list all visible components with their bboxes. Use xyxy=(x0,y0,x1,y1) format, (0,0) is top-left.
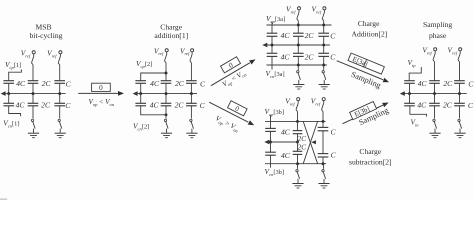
node comparator tap block3b xyxy=(264,140,269,145)
node Vref terminal 2 block3a xyxy=(312,4,322,14)
capacitor C block5 bottom xyxy=(454,94,474,110)
capacitor 2C block2 bottom xyxy=(161,94,185,110)
svg-text:Vcn[3b]: Vcn[3b] xyxy=(265,167,285,177)
capacitor 4C block3a bottom xyxy=(267,45,291,61)
ground block1 right xyxy=(0,0,1,1)
wire bottom bus block3b xyxy=(265,162,326,165)
capacitor 2C block1 bottom xyxy=(28,94,51,110)
node Vcn[3b] label xyxy=(265,167,285,177)
wire sampling arrow from 3b xyxy=(343,100,390,123)
ground block1 left xyxy=(0,0,1,1)
register box E[3a] xyxy=(348,53,385,75)
ground block2 left xyxy=(0,0,1,1)
label Sampling lower xyxy=(358,106,390,127)
capacitor 4C block2 bottom xyxy=(135,94,159,110)
svg-text:Vcp[1]: Vcp[1] xyxy=(5,60,21,70)
wire Vcp[3b] stub xyxy=(270,115,272,121)
switch S3 block2 to ground xyxy=(161,106,172,138)
svg-text:Vcn[1]: Vcn[1] xyxy=(3,118,19,128)
wire common rail block1 xyxy=(2,92,66,95)
wire C top to rail block5 xyxy=(459,83,461,93)
svg-text:2C: 2C xyxy=(298,143,307,151)
title Sampling phase xyxy=(423,20,452,40)
switch S2 block2 to Vref xyxy=(190,49,194,81)
wire C top to rail xyxy=(59,83,61,93)
svg-text:C: C xyxy=(468,79,474,88)
wire 2C top to rail block5 xyxy=(434,83,436,93)
capacitor 4C block3b top xyxy=(265,121,291,136)
ground block2 right xyxy=(0,0,1,1)
capacitor 4C block1 top xyxy=(3,79,26,88)
node Vcn[1] label xyxy=(3,118,19,128)
wire decision arrow down (Vop>Von) xyxy=(209,102,255,127)
switch S3 block3b to ground xyxy=(292,164,303,188)
wire cross connection X right-to-left xyxy=(303,121,317,163)
svg-text:4C: 4C xyxy=(281,127,291,136)
capacitor C block3a bottom xyxy=(318,45,336,62)
node comparator tap block1 xyxy=(1,91,6,96)
switch S3 block1 to ground xyxy=(28,106,39,138)
wire common rail block5 xyxy=(401,92,467,95)
svg-text:Sampling: Sampling xyxy=(423,20,452,29)
switch S3 block3a to ground xyxy=(293,65,304,89)
node comparator tap block5 xyxy=(400,91,405,96)
wire 2C top to rail block2 xyxy=(165,83,167,93)
node Vcn[2] label xyxy=(133,121,149,131)
wire 4C top to rail block5 xyxy=(409,83,411,93)
node comparator tap block3a xyxy=(262,43,267,48)
ground block5 right xyxy=(0,0,1,1)
wire decision arrow 0 (Vop<Von) xyxy=(78,91,124,96)
svg-text:4C: 4C xyxy=(417,101,427,110)
node Vcp[2] label xyxy=(136,59,152,69)
svg-text:Charge: Charge xyxy=(358,19,380,28)
node Vcp[3b] label xyxy=(265,107,285,117)
switch S1 block3b to Vref xyxy=(296,98,300,122)
capacitor 2C block5 bottom xyxy=(429,94,453,110)
register box 0 down xyxy=(227,101,247,117)
svg-text:2C: 2C xyxy=(443,79,453,88)
switch S3 block5 to ground xyxy=(429,106,440,138)
ground block3b left xyxy=(0,0,1,1)
svg-text:2C: 2C xyxy=(175,101,185,110)
wire top bus block3a xyxy=(267,24,332,27)
svg-text:4C: 4C xyxy=(281,31,291,40)
switch S2 block3a to Vref xyxy=(322,7,326,25)
svg-text:Addition[2]: Addition[2] xyxy=(351,29,387,38)
capacitor 4C block2 top xyxy=(135,79,160,88)
wire 4C to rail block3a xyxy=(271,36,273,45)
switch S1 block2 to Vref xyxy=(165,49,169,81)
switch S1 block5 to Vref xyxy=(433,48,437,81)
wire Vcp[3a] stub xyxy=(271,22,273,25)
ground block3b right xyxy=(0,0,1,1)
register box 0 first xyxy=(92,83,111,92)
switch S2 block1 to Vref xyxy=(58,51,62,81)
title Charge Addition[2] xyxy=(351,19,387,38)
svg-text:2C: 2C xyxy=(305,31,315,40)
node Vref terminal 1 block5 xyxy=(422,45,432,55)
node Vref terminal 1 block3a xyxy=(286,4,296,14)
switch S4 block2 to ground xyxy=(186,106,197,138)
switch S2 block3b to Vref xyxy=(322,98,326,122)
svg-text:2C: 2C xyxy=(42,79,52,88)
wire common rail block3a xyxy=(264,44,330,47)
capacitor C block5 top xyxy=(454,79,474,88)
wire C top to rail block2 xyxy=(190,83,192,93)
node Vref terminal 2 block2 xyxy=(180,46,190,56)
node comparator tap block2 xyxy=(133,91,138,96)
wire Vcp[1] pointer to 4C top plate xyxy=(9,69,22,80)
wire sampling arrow from 3a xyxy=(337,61,390,85)
ground block3a right xyxy=(0,0,1,1)
switch S2 block5 to Vref xyxy=(458,48,462,81)
capacitor C block3b bottom xyxy=(318,151,337,160)
svg-text:subtraction[2]: subtraction[2] xyxy=(349,158,392,167)
wire 2C top to rail xyxy=(32,83,34,93)
svg-text:2C: 2C xyxy=(305,52,315,61)
register box E[3b] xyxy=(350,102,377,121)
svg-text:Charge: Charge xyxy=(359,147,381,156)
svg-text:0: 0 xyxy=(99,84,103,92)
capacitor 4C block5 top xyxy=(404,79,427,88)
node Vcp[3a] label xyxy=(266,14,285,24)
wire 4C bottom to bus block3b xyxy=(270,155,272,164)
capacitor 2C block1 top xyxy=(28,79,52,88)
svg-text:4C: 4C xyxy=(418,79,428,88)
capacitor 2C block3a bottom xyxy=(293,45,314,61)
svg-text:Vcn[2]: Vcn[2] xyxy=(133,121,149,131)
svg-text:Vcp[2]: Vcp[2] xyxy=(136,59,152,69)
wire C bottom to bus xyxy=(322,157,324,164)
switch S1 block3a to Vref xyxy=(297,7,301,25)
wire 2C to rail block3a xyxy=(297,36,299,45)
svg-text:Vcn[3a]: Vcn[3a] xyxy=(266,69,285,79)
capacitor C block1 top xyxy=(54,79,71,88)
node Vcp[1] label xyxy=(5,60,21,70)
wire 4C top to rail block2 xyxy=(140,83,142,93)
svg-text:2C: 2C xyxy=(298,135,307,143)
svg-text:addition[1]: addition[1] xyxy=(154,31,188,40)
svg-text:Vcp[3a]: Vcp[3a] xyxy=(266,14,285,24)
capacitor C block1 bottom xyxy=(54,94,71,110)
wire common rail block3b xyxy=(266,141,299,144)
capacitor 2C block3b upper xyxy=(293,121,306,143)
node swap tap arrow xyxy=(311,140,316,144)
wire 4C to rail block3b xyxy=(270,131,272,142)
wire cross connection X left-to-right xyxy=(303,121,317,163)
label Vop < Von xyxy=(88,98,114,107)
node Vref terminal 2 block1 xyxy=(47,48,57,58)
capacitor C block2 top xyxy=(186,79,206,88)
capacitor 2C block2 top xyxy=(161,79,185,88)
wire 2C upper to rail xyxy=(297,134,299,142)
switch S4 block3a to ground xyxy=(319,65,330,89)
wire top bus block3b xyxy=(265,120,326,123)
title Charge addition[1] xyxy=(154,23,188,41)
wire series link C caps xyxy=(322,131,324,154)
wire Vcn[3b] stub xyxy=(270,164,272,168)
title MSB bit-cycling xyxy=(30,23,63,41)
node Vref terminal 1 block2 xyxy=(154,46,164,56)
svg-text:4C: 4C xyxy=(281,151,291,160)
svg-text:2C: 2C xyxy=(443,101,453,110)
wire Vip pointer xyxy=(409,67,421,81)
wire common rail block2 xyxy=(134,92,197,95)
svg-text:bit-cycling: bit-cycling xyxy=(30,31,63,40)
wire 4C bottom tied to ground lead xyxy=(141,106,168,116)
wire 2C lower to bus xyxy=(297,154,299,163)
node Vref terminal 2 block5 xyxy=(448,45,458,55)
node Vin label xyxy=(411,118,420,128)
capacitor C block2 bottom xyxy=(186,94,206,110)
capacitor 4C block5 bottom xyxy=(404,94,427,110)
capacitor 2C block5 top xyxy=(429,79,453,88)
node Vip label xyxy=(408,58,417,68)
svg-text:4C: 4C xyxy=(150,101,160,110)
wire Vcn[3a] stub xyxy=(271,65,273,70)
wire Vin pointer xyxy=(410,106,427,117)
node Vref terminal 1 block3b xyxy=(285,96,295,106)
svg-text:4C: 4C xyxy=(16,79,26,88)
switch S4 block1 to ground xyxy=(55,106,66,138)
label Sampling upper xyxy=(350,70,382,90)
node Vcn[3a] label xyxy=(266,69,285,79)
svg-text:phase: phase xyxy=(429,31,447,40)
svg-text:4C: 4C xyxy=(16,101,26,110)
svg-text:2C: 2C xyxy=(175,79,185,88)
wire C to rail block3a xyxy=(323,36,325,45)
capacitor 4C block3a top xyxy=(267,25,291,40)
node Vref terminal 2 block3b xyxy=(311,96,321,106)
svg-text:2C: 2C xyxy=(41,101,51,110)
capacitor 4C block1 bottom xyxy=(3,94,25,110)
capacitor C block3a top xyxy=(318,25,336,40)
wire bottom bus block3a xyxy=(267,56,328,66)
capacitor 4C block3b bottom xyxy=(265,142,291,160)
switch S1 block1 to Vref xyxy=(32,51,36,81)
node Vref terminal 1 block1 xyxy=(21,48,31,58)
switch S4 block3b to ground xyxy=(318,164,329,188)
wire 4C top to rail xyxy=(8,83,10,93)
capacitor C block3b top xyxy=(318,121,337,136)
capacitor 2C block3b lower xyxy=(293,142,306,154)
ground block3a left xyxy=(0,0,1,1)
svg-text:4C: 4C xyxy=(150,79,160,88)
svg-text:4C: 4C xyxy=(281,52,291,61)
svg-text:Vcp[3b]: Vcp[3b] xyxy=(265,107,285,117)
register box 0 up xyxy=(221,57,241,74)
wire Vcn[1] pointer xyxy=(9,106,21,116)
wire 4C top plate tied to Vref lead xyxy=(141,72,168,81)
label Vop < Von up xyxy=(221,68,248,89)
switch S4 block5 to ground xyxy=(454,106,465,138)
scan artifact bottom-left xyxy=(0,199,7,200)
label Vop > Von down xyxy=(214,114,241,134)
wire decision arrow up (Vop<Von) xyxy=(211,57,257,85)
capacitor 2C block3a top xyxy=(293,25,314,40)
ground block5 left xyxy=(0,0,1,1)
title Charge subtraction[2] xyxy=(349,147,392,166)
